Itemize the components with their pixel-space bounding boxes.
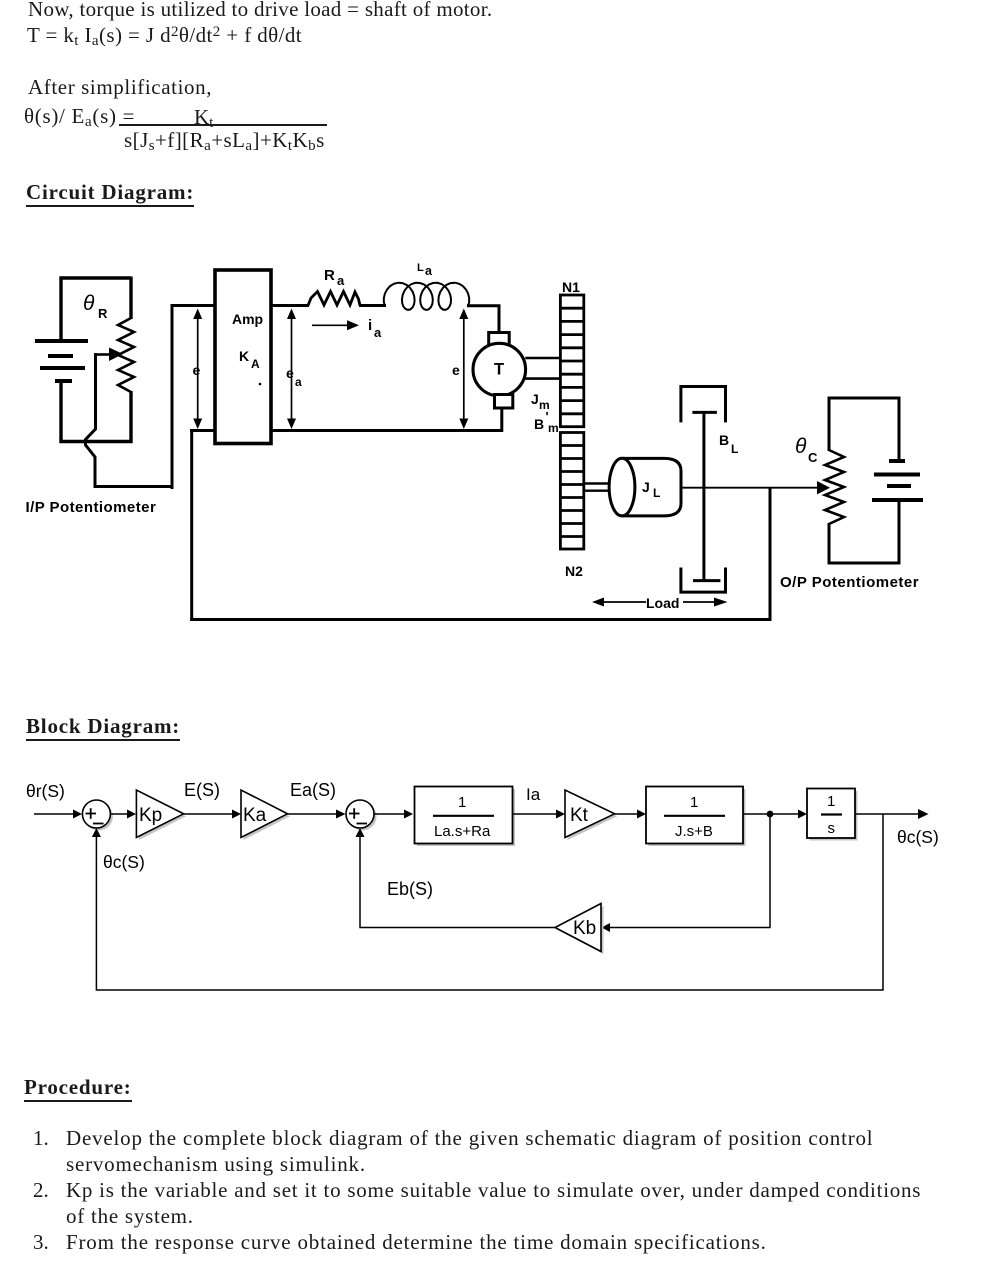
svg-text:1: 1 [827,793,835,810]
battery B2 plate long [874,473,920,477]
transfer function fraction [24,103,135,129]
svg-text:s: s [828,820,836,837]
heading: Block Diagram [26,715,180,741]
svg-text:1: 1 [458,794,466,811]
wire: pot left branch bottom [828,523,831,565]
motor shaft to gear N1 [525,357,560,360]
battery B1 (I/P) plate long [35,339,88,343]
gain Ka [244,793,291,841]
feedback wire: tap from load shaft down [769,488,772,621]
svg-text:Kp: Kp [139,805,162,826]
input wire [34,813,75,815]
wire Kb to S2 bottom [360,837,555,928]
battery B2 plate short [887,484,911,488]
block 1/(La.s+Ra) [417,789,515,846]
gain Kp [139,793,186,841]
summing junction S1 [85,803,113,831]
battery B2 (O/P) plate short [889,459,905,463]
wire S2 to armature block [374,813,406,815]
node junction dot [767,811,774,818]
svg-text:La.s+Ra: La.s+Ra [434,823,491,840]
procedure list [33,1125,49,1151]
output wire [855,813,920,815]
gear N2 [560,433,583,550]
load inertia JL cylinder body [622,458,681,516]
amplifier block Amp KA [215,270,271,444]
wire Ka to S2 [288,813,339,815]
wiper wire down with crossover jog [86,353,96,488]
feedback wire: bottom horizontal [190,618,771,621]
damper BL top piston [692,411,717,414]
inner feedback wire from node down [610,814,770,928]
damper BL center rod [702,412,705,580]
svg-text:Ia: Ia [526,785,541,804]
battery B1 plate short [48,354,73,358]
wire Kp to Ka [184,813,234,815]
wire: amp input top [171,304,216,307]
I/P pot bottom wire (with crossover gap) [60,440,133,443]
wire: pot right branch bottom [129,391,132,443]
svg-text:1: 1 [690,794,698,811]
block 1/(J.s+B) [649,789,746,846]
damper BL top bracket [681,387,726,423]
wire: right branch to battery [898,397,901,462]
O/P potentiometer loop: top wire [828,397,901,400]
svg-text:θc(S): θc(S) [897,827,939,847]
wire: pot right branch top [129,277,132,320]
wire block to Kt [513,813,559,815]
svg-text:Kt: Kt [570,805,589,826]
e arrow (amp input) [197,312,199,425]
wire: battery bottom to bottom wire [898,500,901,565]
battery B1 plate short [55,379,72,383]
battery B2 plate long [872,498,923,502]
gear N1 [560,295,583,427]
block 1/s integrator [810,791,858,841]
wire: left vertical from top wire to battery [59,277,62,341]
resistor Ra zigzag [308,292,360,306]
svg-text:J.s+B: J.s+B [675,823,713,840]
svg-text:θc(S): θc(S) [103,852,145,872]
svg-text:θr(S): θr(S) [26,781,65,801]
wire: battery bottom to bottom wire [59,381,62,443]
top paragraph text [28,0,492,22]
potentiometer R (theta_R) zigzag [118,318,134,392]
wire: riser up to amp input [171,306,174,490]
battery B1 plate long [40,366,85,370]
O/P pot bottom wire [828,562,901,565]
summing junction S2 [349,803,377,831]
load shaft to O/P pot wiper [681,487,819,489]
heading: Procedure [24,1076,132,1102]
motor T bottom terminal [495,395,513,409]
I/P potentiometer loop: top wire [60,276,132,279]
ia current arrow [312,324,349,326]
wire to integrator with node [743,813,800,815]
motor T top terminal [489,333,510,345]
inductor La coil [384,283,469,310]
wire between Ra and La [359,304,386,307]
gain Kb (points left) [558,906,604,954]
shaft N2 to load inertia [584,482,614,484]
wire: feedback vertical at amp (from O/P pot) [190,429,193,621]
Load span arrow [602,601,646,603]
e arrow (motor terminal) [463,312,465,425]
wire: motor bottom to bottom wire [500,408,503,432]
wire: lower horizontal to riser [94,485,173,488]
wire S1 to Kp [111,813,130,815]
svg-text:E(S): E(S) [184,780,220,800]
motor T body [473,343,526,396]
wiper arrow of I/P pot [97,353,112,356]
wire: bottom wire left of amp [190,429,215,432]
potentiometer (theta_C) zigzag [825,450,844,524]
svg-text:Kb: Kb [573,918,596,939]
wire: amp output top [271,304,309,307]
heading: Circuit Diagram [26,181,194,207]
wire from La to motor [467,306,499,333]
wire: pot left branch top [828,397,831,452]
bottom wire right of amp [271,429,503,432]
gain Kt [568,793,618,841]
wire Kt to motor block [615,813,639,815]
load inertia JL end ellipse [609,458,635,516]
outer feedback wire [96,814,883,990]
e_a arrow (amp output) [291,312,293,425]
svg-text:Eb(S): Eb(S) [387,879,433,899]
svg-text:Ea(S): Ea(S) [290,780,336,800]
svg-text:Ka: Ka [243,805,267,826]
O/P pot wiper arrowhead [817,481,830,494]
damper BL bottom bracket [681,568,726,593]
damper BL bottom piston [693,579,720,582]
